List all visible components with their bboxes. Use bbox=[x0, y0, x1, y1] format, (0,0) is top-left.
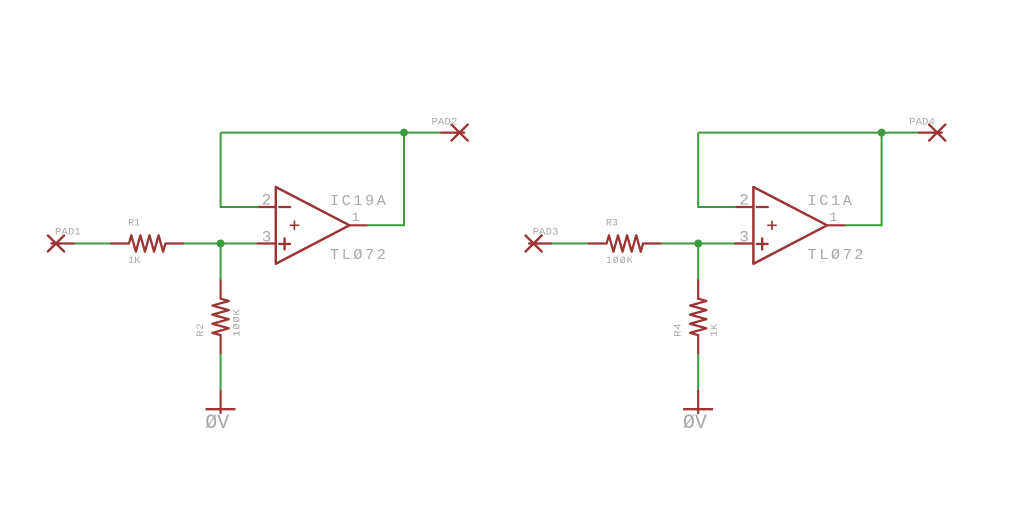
resistor R1 bbox=[111, 235, 184, 251]
svg-text:ØV: ØV bbox=[205, 412, 229, 435]
svg-text:PAD3: PAD3 bbox=[533, 227, 559, 239]
wire R4 to ground bbox=[697, 354, 699, 391]
ground 0V bbox=[683, 391, 713, 413]
wire feedback to pin 2 bbox=[698, 133, 736, 207]
svg-text:TLØ72: TLØ72 bbox=[808, 247, 867, 264]
svg-text:1K: 1K bbox=[128, 256, 140, 267]
pad PAD3 bbox=[526, 236, 553, 252]
svg-text:PAD2: PAD2 bbox=[432, 116, 458, 128]
wire top feedback run bbox=[221, 132, 404, 134]
svg-text:R3: R3 bbox=[606, 219, 618, 230]
wire top feedback run bbox=[698, 132, 881, 134]
wire R2 to ground bbox=[220, 354, 222, 391]
pad PAD2 bbox=[441, 125, 468, 141]
svg-text:3: 3 bbox=[739, 229, 749, 247]
svg-text:IC19A: IC19A bbox=[330, 193, 389, 210]
junction node A bbox=[694, 240, 702, 248]
svg-text:1: 1 bbox=[352, 210, 360, 225]
junction node B bbox=[400, 129, 408, 137]
pad PAD1 bbox=[48, 236, 75, 252]
wire node B to PAD2 bbox=[404, 132, 441, 134]
resistor R4 bbox=[690, 280, 706, 353]
pad PAD4 bbox=[919, 125, 946, 141]
wire node A to R4 bbox=[697, 244, 699, 281]
svg-text:ØV: ØV bbox=[683, 412, 707, 435]
svg-text:2: 2 bbox=[262, 192, 272, 210]
svg-text:PAD4: PAD4 bbox=[909, 116, 935, 128]
ground 0V bbox=[206, 391, 236, 413]
svg-text:R4: R4 bbox=[672, 323, 684, 337]
wire R3 to node A bbox=[661, 243, 698, 245]
wire feedback to pin 2 bbox=[221, 133, 259, 207]
wire output to node B bbox=[845, 133, 882, 226]
svg-text:PAD1: PAD1 bbox=[55, 227, 81, 239]
svg-text:1K: 1K bbox=[709, 323, 721, 337]
wire node A to pin 3 bbox=[698, 243, 736, 245]
junction node B bbox=[878, 129, 886, 137]
wire node B to PAD4 bbox=[882, 132, 919, 134]
svg-text:R1: R1 bbox=[128, 219, 140, 230]
svg-text:R2: R2 bbox=[195, 323, 207, 337]
svg-text:IC1A: IC1A bbox=[808, 193, 855, 210]
svg-text:TLØ72: TLØ72 bbox=[330, 247, 389, 264]
op-amp IC19A bbox=[257, 187, 367, 264]
wire node A to pin 3 bbox=[221, 243, 259, 245]
wire output to node B bbox=[367, 133, 404, 226]
resistor R3 bbox=[589, 235, 662, 251]
wire R1 to node A bbox=[184, 243, 221, 245]
wire node A to R2 bbox=[220, 244, 222, 281]
svg-text:1: 1 bbox=[829, 210, 837, 225]
junction node A bbox=[217, 240, 225, 248]
wire PAD1 to R1 bbox=[74, 243, 111, 245]
svg-text:1ØØK: 1ØØK bbox=[606, 255, 634, 267]
svg-text:2: 2 bbox=[739, 192, 749, 210]
svg-text:3: 3 bbox=[262, 229, 272, 247]
wire PAD3 to R3 bbox=[552, 243, 589, 245]
svg-text:1ØØK: 1ØØK bbox=[232, 308, 244, 336]
op-amp IC1A bbox=[735, 187, 845, 264]
resistor R2 bbox=[212, 280, 228, 353]
